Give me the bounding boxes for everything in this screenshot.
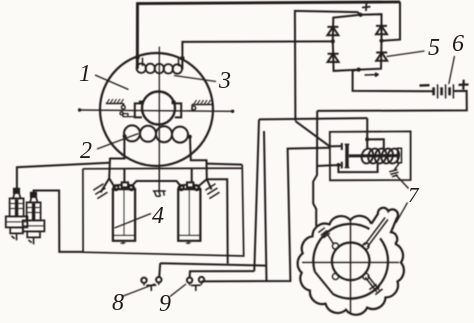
bridge diode upper-left [327, 27, 338, 35]
breaker arm to cam follower (double line) [365, 218, 388, 248]
bridge diode lower-left [328, 54, 339, 62]
svg-text:5: 5 [428, 35, 440, 61]
svg-text:8: 8 [112, 290, 124, 316]
horn coil top terminal dot and link [365, 137, 369, 141]
horn coil spring loops [360, 147, 401, 165]
label 7 leader to magneto cam follower [396, 203, 408, 223]
generator rotor (armature) circle [142, 92, 175, 125]
generator horizontal axis with end dots [79, 110, 233, 111]
switch 8 blade tee [146, 285, 156, 291]
switch 9 blade tee [191, 285, 201, 291]
left ground hatch [93, 184, 107, 199]
svg-text:4: 4 [152, 203, 164, 229]
wire: switch 9 left feeder [190, 271, 255, 277]
ignition coil box outline [83, 165, 244, 256]
wire: DC plus distribution horizontal [259, 118, 367, 119]
label 4 leader [115, 214, 152, 229]
generator G stator circle [100, 53, 213, 166]
spark plug left [6, 189, 28, 241]
bridge diode upper-right [376, 26, 387, 34]
ignition coil 4 left body [113, 189, 135, 241]
label 9 leader [170, 284, 186, 297]
upper left ground link and hatch [327, 234, 333, 244]
label 6 leader to battery [449, 56, 455, 84]
rotor right cheek [175, 103, 181, 117]
wire: bridge plus lead across to left vertical feeder [295, 11, 361, 121]
wire: right coil node over and down through box [207, 179, 228, 263]
stator plate arc right-bottom [333, 238, 388, 298]
wire: coil 2 right lead stepping down [190, 138, 207, 179]
wire: right plug lead around to coil box corner [34, 191, 83, 252]
label 1 leader [95, 75, 129, 90]
label 3 leader [174, 76, 216, 82]
wire: switch 9 right to horn riser [202, 148, 330, 282]
bridge junction dots [359, 13, 363, 17]
horn core shaft [349, 154, 400, 157]
bridge diode lower-right [376, 53, 387, 61]
field coil 3 pole sides [143, 58, 179, 67]
coil left cap and terminals [113, 185, 135, 190]
svg-text:3: 3 [218, 68, 231, 94]
hub screws [332, 243, 338, 249]
wire: coil 2 left lead stepping down to ignition coil node [109, 137, 124, 178]
wire: top bus from generator to right drop [137, 2, 400, 69]
horn box outline [330, 131, 411, 180]
ignition coil 4 right body [178, 189, 200, 241]
wire: switch 8 feeder below box [159, 263, 265, 277]
rectifier 5 bridge frame [333, 14, 382, 71]
left coil node diagonals to terminal and ground [101, 178, 114, 192]
horn core end cap [398, 148, 402, 163]
horn terminal 1 lead with contact tee [330, 143, 342, 150]
magneto hub circle [332, 242, 370, 280]
battery plus sign [459, 80, 469, 90]
wire: bridge minus to battery minus [353, 70, 434, 92]
wire: box top edge branch into right coil HT cap [191, 168, 193, 182]
wire: link between coil terminals [133, 181, 181, 185]
horn armature plate [345, 144, 348, 167]
lighting coil 2 loops [124, 125, 188, 142]
rotor left cheek [135, 103, 142, 117]
wire: diagonal feed to horn terminal 1 [296, 121, 330, 146]
wire: stub into horn terminal 2 [317, 164, 330, 167]
right brush pad with hatching [192, 104, 212, 106]
bridge minus arrow [365, 73, 379, 76]
wire: battery plus down and across to ignition feed [317, 91, 467, 111]
field coil 3 winding loops [137, 63, 182, 73]
horn lower link from terminal 2 to coil [338, 164, 377, 172]
wire: DC plus drop to horn coil terminal [366, 118, 368, 139]
left brush pad with hatching [106, 103, 124, 105]
svg-text:6: 6 [452, 31, 464, 57]
horn internal ground symbol [389, 163, 399, 177]
left brush hook [122, 114, 135, 117]
wire: left plug lead to coil node [17, 163, 109, 188]
label 2 leader [97, 134, 139, 150]
switch 9 contacts [187, 278, 192, 283]
svg-text:7: 7 [408, 183, 420, 207]
wire entry blobs on stator top [136, 56, 185, 60]
magneto flywheel scalloped rim [298, 216, 404, 315]
wire: feed into box right edge top [207, 164, 242, 165]
svg-text:2: 2 [80, 138, 92, 164]
svg-text:9: 9 [159, 291, 171, 317]
stator plate arc left-top [313, 224, 369, 272]
wire: box top edge branch into left coil HT cap [123, 169, 125, 183]
wire: top bus drop to bridge right AC input [382, 2, 401, 41]
spark plug right [23, 193, 45, 245]
condenser lead arm lower right (double line) [365, 276, 379, 292]
generator vertical axis [158, 47, 160, 166]
lower right ground hatch [369, 284, 382, 295]
stator plate chord cut [315, 272, 333, 295]
generator frame ground below (bar and ticks) [153, 166, 166, 197]
battery minus sign [420, 84, 430, 87]
magneto crosshair horizontal [302, 261, 399, 263]
wire: feed drop to horn terminal 2 and magneto points [313, 111, 317, 226]
right ground hatch [205, 184, 219, 199]
wire: DC plus long left drop to switch 9 [254, 119, 259, 271]
svg-text:1: 1 [79, 61, 91, 87]
right coil node diagonals to terminal and ground [199, 179, 212, 189]
magneto cam follower housing protrusion [371, 208, 398, 244]
coil right cap and terminals [178, 185, 200, 190]
bridge plus sign [362, 3, 370, 11]
battery 6 plates [432, 87, 435, 95]
label 7 leader to horn ground [396, 175, 409, 189]
wire: long vertical V_B to switch 9 right line [264, 131, 267, 281]
switch 8 contacts [141, 278, 146, 283]
horn terminal 2 lead with contact tee and dot [330, 162, 342, 169]
magneto crosshair vertical [350, 220, 352, 314]
label 5 leader to lower-right diode [387, 51, 425, 57]
wire: generator second output to bridge left AC input [182, 41, 332, 69]
coil 2 terminal dots [123, 134, 127, 138]
label 8 leader [122, 284, 155, 297]
